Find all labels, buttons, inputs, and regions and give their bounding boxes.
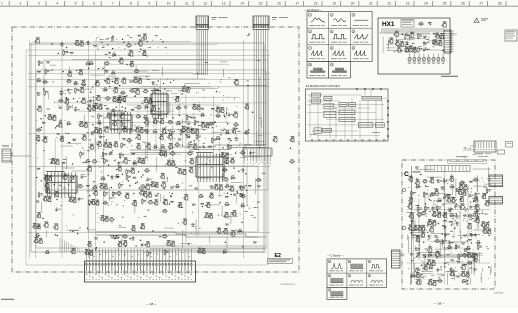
svg-text:3: 3 <box>38 2 40 6</box>
svg-text:27: 27 <box>479 2 483 6</box>
svg-text:E2 BOARD (CDX4 COM DET): E2 BOARD (CDX4 COM DET) <box>306 85 340 88</box>
svg-text:22: 22 <box>387 2 391 6</box>
svg-text:7: 7 <box>111 2 113 6</box>
svg-text:28: 28 <box>498 2 502 6</box>
svg-text:— E2 Board —: — E2 Board — <box>304 8 322 12</box>
svg-text:14: 14 <box>240 2 244 6</box>
svg-text:6: 6 <box>93 2 95 6</box>
svg-text:1: 1 <box>1 2 3 6</box>
svg-text:— C Board —: — C Board — <box>327 253 344 257</box>
svg-text:9: 9 <box>148 2 150 6</box>
svg-text:25: 25 <box>443 2 447 6</box>
svg-text:(CONTINUED) 1/3: (CONTINUED) 1/3 <box>280 284 295 286</box>
svg-text:17: 17 <box>295 2 299 6</box>
svg-text:20: 20 <box>351 2 355 6</box>
svg-text:— 1/8 —: — 1/8 — <box>434 302 445 306</box>
svg-text:12: 12 <box>203 2 207 6</box>
svg-text:15: 15 <box>259 2 263 6</box>
svg-text:18: 18 <box>314 2 318 6</box>
svg-text:5: 5 <box>75 2 77 6</box>
svg-text:21: 21 <box>369 2 373 6</box>
svg-text:26: 26 <box>461 2 465 6</box>
svg-text:19: 19 <box>332 2 336 6</box>
svg-text:HX1: HX1 <box>382 21 395 28</box>
svg-text:24: 24 <box>424 2 428 6</box>
svg-text:4-236-781-0: 4-236-781-0 <box>494 293 503 295</box>
svg-text:10: 10 <box>167 2 171 6</box>
svg-text:23: 23 <box>406 2 410 6</box>
svg-text:4: 4 <box>56 2 58 6</box>
svg-text:16: 16 <box>277 2 281 6</box>
svg-text:— 1/8 —: — 1/8 — <box>146 302 157 306</box>
svg-text:2: 2 <box>19 2 21 6</box>
svg-text:E2: E2 <box>275 253 281 259</box>
svg-text:8: 8 <box>130 2 132 6</box>
svg-text:11: 11 <box>185 2 189 6</box>
svg-text:C: C <box>404 171 409 178</box>
svg-text:13: 13 <box>222 2 226 6</box>
